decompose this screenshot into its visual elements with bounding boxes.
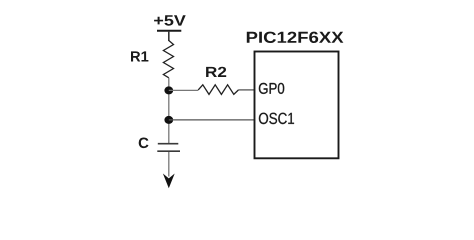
capacitor C bottom plate [157, 150, 180, 152]
capacitor C top plate [158, 143, 179, 145]
label PIC12F6XX [247, 32, 344, 43]
pin label GP0 [259, 83, 284, 94]
pin label OSC1 [259, 113, 294, 124]
+5V supply label [154, 15, 186, 25]
node junction dot (GP0 branch) [164, 86, 173, 94]
resistor R1 [163, 41, 173, 78]
wire (junction to R2) [169, 89, 198, 91]
IC U1 PIC12F6XX box [255, 52, 339, 159]
label R2 [206, 67, 226, 77]
+5V rail bar [157, 30, 181, 32]
label R1 [131, 51, 148, 61]
wire (capacitor to ground) [168, 152, 170, 177]
wire (junction to OSC1 pin) [169, 119, 255, 121]
ground arrow [163, 174, 175, 189]
capacitor C label [139, 138, 149, 149]
resistor R2 [198, 85, 238, 95]
node junction dot (OSC1 branch) [164, 116, 173, 124]
wire (R2 to GP0 pin) [239, 89, 255, 91]
wire (bar to R1) [168, 31, 170, 41]
wire (R1 down through junctions to capacitor) [168, 78, 170, 143]
